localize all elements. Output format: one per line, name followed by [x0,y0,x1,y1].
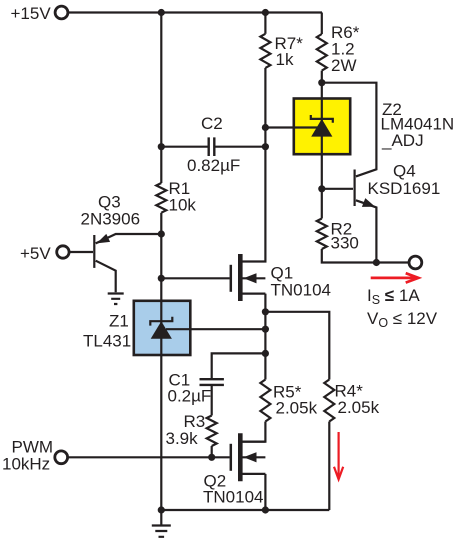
junction C1 wire [262,350,269,357]
capacitor C2 [209,137,215,156]
svg-text:TN0104: TN0104 [271,281,331,300]
terminal PWM [55,451,68,464]
resistor R2 [317,219,327,250]
svg-text:VO ≤ 12V: VO ≤ 12V [367,309,438,330]
ground Q3 [108,294,124,305]
transistor Q3 base plate [93,235,95,268]
wire bottom rail [161,509,329,511]
svg-text:TL431: TL431 [83,332,131,351]
resistor R6 [317,34,327,71]
svg-text:TN0104: TN0104 [203,488,263,507]
resistor R3 [207,416,217,447]
mosfet Q2 drain lead [243,441,266,443]
wire R5 to Q2 drain [243,422,266,442]
junction Q4 base [318,185,325,192]
junction ADJ [262,124,269,131]
svg-text:+5V: +5V [20,244,51,263]
transistor Q3 emitter arrow [97,234,111,244]
zener Z2 cathode bar [311,115,333,123]
junction top rail / second line [262,9,269,16]
svg-text:330: 330 [331,234,359,253]
capacitor C1 [200,379,224,385]
junction Q1 gate [158,275,165,282]
current arrow R4 (red) [334,432,343,479]
terminal +15V [55,6,68,19]
wire R7 to Q1 drain [243,68,266,262]
junction R6 bottom [318,79,325,86]
wire C1 top [212,353,266,378]
wire second line upper (+15V rail to R7) [264,13,266,34]
highlight box Z1 [134,301,191,355]
wire top rail [68,11,322,13]
zener Z1 anode triangle [151,321,172,339]
svg-text:10k: 10k [169,196,197,215]
wire C1 to R3 [211,385,213,416]
mosfet Q1 source lead [243,293,266,295]
mosfet Q2 channel bar [238,433,243,481]
wire R2 to output [322,249,409,263]
resistor R7 [260,34,270,68]
wire left line lower (R1 to ground rail) [160,213,162,510]
svg-text:2N3906: 2N3906 [81,210,141,229]
junction Q4 emitter output [373,259,380,266]
junction R3 PWM [208,454,215,461]
svg-text:3.9k: 3.9k [166,429,199,448]
junction Q1 source / R4 [262,308,269,315]
junction Z1 wire [262,326,269,333]
svg-text:2.05k: 2.05k [276,399,318,418]
zener Z2 anode triangle [311,119,332,137]
current arrow output (red) [371,273,419,282]
wire left line upper (node to R1) [160,13,162,184]
highlight box Z2 [294,99,350,155]
transistor Q4 emitter arrow [362,198,375,207]
mosfet Q2 body lead [243,456,266,458]
svg-text:+15V: +15V [11,4,52,23]
svg-text:0.2µF: 0.2µF [168,387,212,406]
wire line C (R6 / Z2 / R2 run) [321,13,323,35]
ground main [152,510,171,537]
wire Q1 source to R5 [264,294,266,380]
junction C2 right [262,143,269,150]
wire R6 through Z2 to R2 [321,71,323,219]
junction C2 left [158,143,165,150]
mosfet Q2 body arrow [244,452,257,462]
mosfet Q1 body arrow [244,273,257,283]
transistor Q3 emitter [96,234,162,243]
zener Z1 cathode bar [150,317,172,326]
resistor R5 [260,380,270,422]
transistor Q4 base bar [354,170,356,207]
junction Q2 source rail [262,506,269,513]
svg-text:2.05k: 2.05k [338,398,380,417]
junction top rail / left line [158,9,165,16]
mosfet Q2 gate plate [230,444,233,471]
resistor R1 [156,183,166,213]
junction Q3 emitter [158,230,165,237]
wire Q1 gate [161,277,229,279]
resistor R4 [324,380,334,422]
svg-text:KSD1691: KSD1691 [368,179,441,198]
svg-text:IS ≤ 1A: IS ≤ 1A [367,286,420,307]
wire R3 to PWM line [211,446,213,457]
mosfet Q1 body lead [243,277,266,279]
svg-text:1k: 1k [276,50,294,69]
wire Q4 collector [322,83,377,177]
transistor Q3 collector [96,261,116,293]
transistor Q3 base wire [69,251,93,253]
wire Q4 base [322,188,353,190]
wire Q2 source to rail [264,474,266,510]
svg-text:_ADJ: _ADJ [381,131,424,150]
mosfet Q1 channel bar [238,254,243,301]
terminal output [409,256,422,269]
wire ADJ to Z2 [265,126,321,128]
svg-text:Q4: Q4 [393,162,416,181]
wire R4 to bottom rail [328,422,330,511]
svg-text:Z1: Z1 [109,312,129,331]
svg-text:C2: C2 [201,114,223,133]
terminal +5V [57,246,69,258]
mosfet Q1 gate plate [230,265,233,292]
transistor Q4 emitter [356,200,377,262]
wire Z1 cathode to node [166,328,265,330]
svg-text:2W: 2W [331,56,357,75]
mosfet Q2 source lead [243,473,266,475]
wire PWM [68,456,230,458]
svg-text:10kHz: 10kHz [2,455,50,474]
wire R4 branch [265,312,329,380]
wire C2 net [161,146,265,148]
junction ground rail [158,506,165,513]
svg-text:0.82µF: 0.82µF [187,156,240,175]
